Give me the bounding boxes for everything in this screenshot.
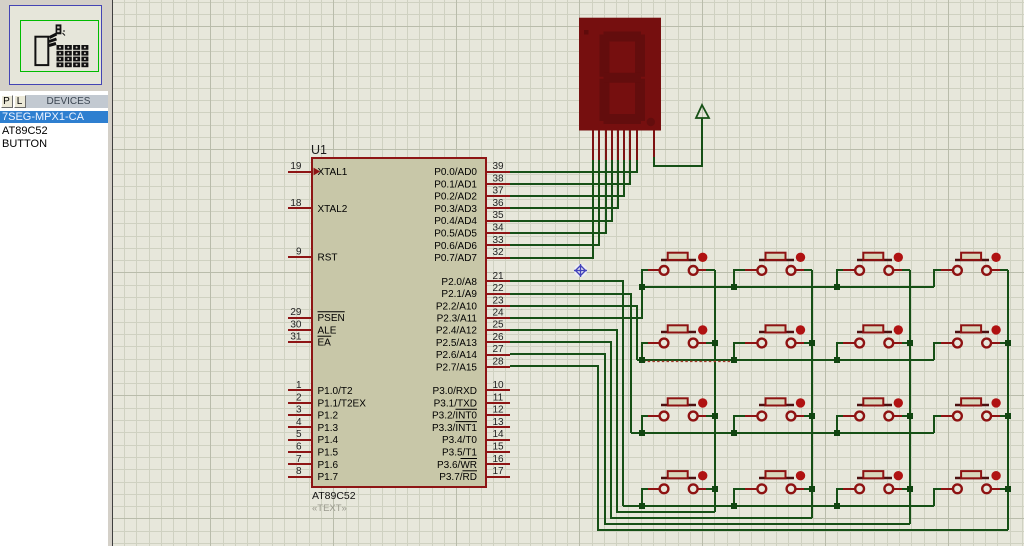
svg-text:P3.7/RD: P3.7/RD [439, 472, 477, 483]
button S2 actuator bar [759, 259, 794, 261]
pin 39 P0.0/AD0 stub [486, 171, 510, 173]
button S12 right terminal [982, 412, 991, 421]
button S16 left terminal [953, 484, 962, 493]
pin 27 P2.6/A14 stub [486, 354, 510, 356]
button S13 left terminal [660, 484, 669, 493]
svg-text:34: 34 [492, 223, 504, 234]
wire P2.1 pin 22 to keypad row 3 bus [510, 294, 631, 433]
svg-text:29: 29 [290, 307, 302, 318]
display segment pin 2 [598, 130, 600, 160]
button S11 red actuator dot [894, 398, 903, 407]
pin 13 P3.3/INT1 stub [486, 426, 510, 428]
junction column 3 row 3 [907, 413, 913, 419]
svg-text:PSEN: PSEN [318, 313, 345, 324]
pin 2 P1.1 stub [288, 402, 312, 404]
junction column 1 row 4 [712, 486, 718, 492]
button S10 red actuator dot [796, 398, 805, 407]
pin 24 P2.3/A11 stub [486, 317, 510, 319]
button S14 actuator bar [759, 477, 794, 479]
button S16 cap [961, 471, 981, 478]
button S14 red actuator dot [796, 471, 805, 480]
svg-text:XTAL2: XTAL2 [318, 204, 348, 215]
junction row 4 bus at column 1 drop [639, 503, 645, 509]
button S4 left terminal [953, 266, 962, 275]
button S8 red actuator dot [991, 325, 1000, 334]
pin 11 P3.1/TXD stub [486, 402, 510, 404]
button S16 terminal wires [934, 489, 941, 506]
button S11 right terminal [884, 412, 893, 421]
button S3 right pin stub [893, 269, 902, 271]
junction row 1 bus at column 2 drop [731, 284, 737, 290]
button S13 left pin stub [648, 488, 660, 490]
power symbol VCC [654, 118, 702, 166]
button S8 right terminal [982, 339, 991, 348]
svg-text:31: 31 [290, 332, 302, 343]
button S7 actuator bar [857, 331, 892, 333]
svg-text:36: 36 [492, 198, 504, 209]
svg-text:P1.3: P1.3 [318, 423, 339, 434]
pin 14 P3.4/T0 stub [486, 439, 510, 441]
wire P2.6 pin 27 to keypad column 3 [510, 354, 910, 524]
svg-text:11: 11 [493, 392, 504, 403]
svg-text:1: 1 [296, 380, 302, 391]
button S15 actuator bar [857, 477, 892, 479]
wire P0.6 pin 33 to display [510, 160, 599, 245]
svg-text:P2.1/A9: P2.1/A9 [441, 289, 477, 300]
pin 10 P3.0/RXD stub [486, 389, 510, 391]
svg-text:22: 22 [492, 283, 504, 294]
button S15 red actuator dot [894, 471, 903, 480]
button S9 right terminal [689, 412, 698, 421]
button S4 terminal wires [934, 270, 941, 287]
button S12 actuator bar [955, 404, 989, 406]
button S4 red actuator dot [991, 253, 1000, 262]
button S3 terminal wires [837, 270, 843, 287]
button S13 cap [668, 471, 688, 478]
button S16 actuator bar [955, 477, 989, 479]
svg-text:RST: RST [318, 253, 338, 264]
svg-text:7: 7 [296, 454, 302, 465]
button S2 terminal wires [734, 270, 745, 287]
button S5 red actuator dot [698, 325, 707, 334]
button S12 right pin stub [991, 415, 1000, 417]
button S1 terminal wires [642, 270, 648, 287]
button S12 red actuator dot [991, 398, 1000, 407]
op-amp U1 body AT89C52 microcontroller [312, 158, 486, 487]
button S3 actuator bar [857, 259, 892, 261]
button S10 right terminal [787, 412, 796, 421]
button S15 right pin stub [893, 488, 902, 490]
junction column 4 row 3 [1005, 413, 1011, 419]
pin 18 XTAL2 stub [288, 207, 312, 209]
button S14 right terminal [787, 484, 796, 493]
button S9 left pin stub [648, 415, 660, 417]
display segment pin 4 [611, 130, 613, 160]
keypad column 4 wire [1007, 270, 1009, 530]
button S1 cap [668, 253, 688, 260]
pin 38 P0.1/AD1 stub [486, 183, 510, 185]
thumbnail keypad [57, 45, 64, 50]
pin 31 EA stub [288, 341, 312, 343]
button S12 left pin stub [941, 415, 953, 417]
junction row 4 bus at column 3 drop [834, 503, 840, 509]
button S4 left pin stub [941, 269, 953, 271]
svg-text:ALE: ALE [318, 325, 337, 336]
svg-text:«TEXT»: «TEXT» [312, 503, 347, 514]
button S9 red actuator dot [698, 398, 707, 407]
junction row 2 bus at column 3 drop [834, 357, 840, 363]
svg-text:6: 6 [296, 442, 302, 453]
svg-text:P0.5/AD5: P0.5/AD5 [434, 229, 477, 240]
button S7 right terminal [884, 339, 893, 348]
wire P2.0 pin 21 to keypad row 4 bus [510, 281, 623, 506]
svg-text:5: 5 [296, 429, 302, 440]
keypad row 3 bus wire [631, 432, 934, 434]
button S2 cap [766, 253, 786, 260]
svg-text:9: 9 [296, 247, 302, 258]
junction row 2 bus at column 2 drop [731, 357, 737, 363]
wire P0.3 pin 36 to display [510, 160, 618, 208]
button S14 left terminal [757, 484, 766, 493]
button S16 red actuator dot [991, 471, 1000, 480]
junction row 2 bus at column 1 drop [639, 357, 645, 363]
svg-text:39: 39 [492, 161, 504, 172]
svg-text:23: 23 [492, 295, 504, 306]
button S11 terminal wires [837, 416, 843, 433]
pin 4 P1.3 stub [288, 426, 312, 428]
pin 36 P0.3/AD3 stub [486, 207, 510, 209]
button S10 actuator bar [759, 404, 794, 406]
button S9 right pin stub [698, 415, 706, 417]
thumbnail display [56, 24, 62, 34]
wire P0.1 pin 38 to display [510, 160, 630, 184]
pin 1 P1.0 stub [288, 389, 312, 391]
svg-text:P3.1/TXD: P3.1/TXD [434, 398, 477, 409]
pin 3 P1.2 stub [288, 414, 312, 416]
pin 25 P2.4/A12 stub [486, 329, 510, 331]
keypad row 2 bus wire [637, 359, 934, 361]
junction column 1 row 3 [712, 413, 718, 419]
button S11 actuator bar [857, 404, 892, 406]
button S8 left pin stub [941, 342, 953, 344]
pin 6 P1.5 stub [288, 451, 312, 453]
pin name labels left side [318, 167, 367, 483]
junction column 3 row 2 [907, 340, 913, 346]
button S14 cap [766, 471, 786, 478]
button S10 left terminal [757, 412, 766, 421]
svg-text:3: 3 [296, 405, 302, 416]
svg-text:P0.7/AD7: P0.7/AD7 [434, 253, 477, 264]
button S11 left pin stub [843, 415, 855, 417]
button S16 right pin stub [991, 488, 1000, 490]
display segment pin 8 [636, 130, 638, 160]
svg-text:P3.4/T0: P3.4/T0 [442, 435, 477, 446]
button S6 terminal wires [734, 343, 745, 360]
display segment pin 5 [617, 130, 619, 160]
wire P0.0 pin 39 to display [510, 160, 637, 172]
button S7 right pin stub [893, 342, 902, 344]
button S1 actuator bar [661, 259, 696, 261]
svg-text:17: 17 [492, 466, 504, 477]
button S8 terminal wires [934, 343, 941, 360]
svg-text:35: 35 [492, 210, 504, 221]
junction column 1 row 2 [712, 340, 718, 346]
button S6 left pin stub [745, 342, 757, 344]
row 2 bus red dashed overlay [643, 360, 734, 362]
svg-text:27: 27 [492, 344, 504, 355]
button S6 red actuator dot [796, 325, 805, 334]
junction row 1 bus at column 1 drop [639, 284, 645, 290]
svg-text:P0.4/AD4: P0.4/AD4 [434, 216, 477, 227]
button S12 terminal wires [934, 416, 941, 433]
button S13 red actuator dot [698, 471, 707, 480]
button S3 left pin stub [843, 269, 855, 271]
pin 15 P3.5/T1 stub [486, 451, 510, 453]
button S12 left terminal [953, 412, 962, 421]
svg-text:EA: EA [318, 338, 332, 349]
pin 23 P2.2/A10 stub [486, 305, 510, 307]
pin 9 RST stub [288, 256, 312, 258]
button S4 right terminal [982, 266, 991, 275]
svg-text:P0.0/AD0: P0.0/AD0 [434, 167, 477, 178]
button S10 cap [766, 398, 786, 405]
svg-text:26: 26 [492, 332, 504, 343]
pin 17 P3.7/RD stub [486, 476, 510, 478]
origin marker node [574, 264, 587, 277]
svg-text:P3.2/INT0: P3.2/INT0 [432, 411, 477, 422]
svg-text:14: 14 [492, 429, 504, 440]
junction column 3 row 4 [907, 486, 913, 492]
button S15 terminal wires [837, 489, 843, 506]
pin 33 P0.6/AD6 stub [486, 244, 510, 246]
active-low overbars [318, 312, 478, 471]
button S15 cap [863, 471, 883, 478]
button S14 terminal wires [734, 489, 745, 506]
button S3 left terminal [855, 266, 864, 275]
svg-text:P1.6: P1.6 [318, 460, 339, 471]
svg-text:P3.0/RXD: P3.0/RXD [433, 386, 477, 397]
button S1 right pin stub [698, 269, 706, 271]
button S8 actuator bar [955, 331, 989, 333]
svg-text:37: 37 [492, 186, 504, 197]
button S2 red actuator dot [796, 253, 805, 262]
svg-text:8: 8 [296, 466, 302, 477]
button S7 cap [863, 325, 883, 332]
button S4 actuator bar [955, 259, 989, 261]
svg-text:P0.2/AD2: P0.2/AD2 [434, 192, 477, 203]
svg-text:P2.0/A8: P2.0/A8 [441, 277, 477, 288]
button S15 left pin stub [843, 488, 855, 490]
button S1 left pin stub [648, 269, 660, 271]
button S4 cap [961, 253, 981, 260]
svg-text:19: 19 [290, 161, 302, 172]
svg-text:P3.5/T1: P3.5/T1 [442, 448, 477, 459]
svg-text:4: 4 [296, 417, 302, 428]
pin name labels right side [432, 167, 477, 483]
svg-text:P3.3/INT1: P3.3/INT1 [432, 423, 477, 434]
button S7 terminal wires [837, 343, 843, 360]
button S13 right pin stub [698, 488, 706, 490]
svg-text:18: 18 [290, 198, 302, 209]
button S4 right pin stub [991, 269, 1000, 271]
button S13 actuator bar [661, 477, 696, 479]
junction row 3 bus at column 3 drop [834, 430, 840, 436]
pin 37 P0.2/AD2 stub [486, 195, 510, 197]
button S9 actuator bar [661, 404, 696, 406]
svg-text:P1.5: P1.5 [318, 448, 339, 459]
button S9 left terminal [660, 412, 669, 421]
thumbnail wires [49, 34, 57, 46]
display common anode pin [653, 130, 655, 158]
button S8 right pin stub [991, 342, 1000, 344]
button S11 cap [863, 398, 883, 405]
keypad row 1 bus wire [642, 286, 934, 288]
button S16 left pin stub [941, 488, 953, 490]
svg-text:24: 24 [492, 308, 504, 319]
button S10 terminal wires [734, 416, 745, 433]
junction row 1 bus at column 3 drop [834, 284, 840, 290]
button S3 right terminal [884, 266, 893, 275]
button S6 left terminal [757, 339, 766, 348]
button S5 actuator bar [661, 331, 696, 333]
display segment pin 6 [623, 130, 625, 160]
svg-text:38: 38 [492, 173, 504, 184]
svg-text:U1: U1 [311, 143, 327, 157]
display pin 1 mark [584, 30, 589, 35]
svg-text:P0.3/AD3: P0.3/AD3 [434, 204, 477, 215]
display segment pin 1 [592, 130, 594, 160]
junction column 2 row 2 [809, 340, 815, 346]
button S13 right terminal [689, 484, 698, 493]
button S6 cap [766, 325, 786, 332]
junction row 3 bus at column 2 drop [731, 430, 737, 436]
svg-text:32: 32 [492, 247, 504, 258]
button S7 left terminal [855, 339, 864, 348]
pin 35 P0.4/AD4 stub [486, 220, 510, 222]
svg-text:2: 2 [296, 392, 302, 403]
wire P0.7 pin 32 to display [510, 160, 593, 258]
svg-text:P1.2: P1.2 [318, 411, 339, 422]
svg-text:28: 28 [492, 356, 504, 367]
junction column 4 row 2 [1005, 340, 1011, 346]
button S5 left pin stub [648, 342, 660, 344]
svg-text:XTAL1: XTAL1 [318, 167, 348, 178]
wire P2.5 pin 26 to keypad column 2 [510, 342, 812, 518]
svg-text:P0.6/AD6: P0.6/AD6 [434, 241, 477, 252]
junction column 2 row 4 [809, 486, 815, 492]
button S8 cap [961, 325, 981, 332]
pin 29 PSEN stub [288, 317, 312, 319]
pin 21 P2.0/A8 stub [486, 280, 510, 282]
button S3 cap [863, 253, 883, 260]
display segment pin 7 [629, 130, 631, 160]
svg-text:P0.1/AD1: P0.1/AD1 [434, 179, 477, 190]
button S3 red actuator dot [894, 253, 903, 262]
pin 28 P2.7/A15 stub [486, 366, 510, 368]
wire P2.2 pin 23 to keypad row 2 bus [510, 306, 637, 360]
wire P0.4 pin 35 to display [510, 160, 612, 221]
button S7 left pin stub [843, 342, 855, 344]
svg-text:16: 16 [492, 454, 504, 465]
svg-text:33: 33 [492, 235, 504, 246]
svg-text:P2.5/A13: P2.5/A13 [436, 338, 478, 349]
wire P0.2 pin 37 to display [510, 160, 624, 196]
svg-text:12: 12 [492, 405, 504, 416]
pin 16 P3.6/WR stub [486, 463, 510, 465]
button S9 cap [668, 398, 688, 405]
svg-text:30: 30 [290, 319, 302, 330]
button S15 left terminal [855, 484, 864, 493]
button S5 terminal wires [642, 343, 648, 360]
svg-text:25: 25 [492, 320, 504, 331]
display segment pin 3 [605, 130, 607, 160]
button S1 right terminal [689, 266, 698, 275]
button S14 right pin stub [796, 488, 804, 490]
keypad column 2 wire [811, 270, 813, 518]
button S1 red actuator dot [698, 253, 707, 262]
junction row 4 bus at column 2 drop [731, 503, 737, 509]
button S10 right pin stub [796, 415, 804, 417]
svg-text:P2.6/A14: P2.6/A14 [436, 350, 478, 361]
wire P2.4 pin 25 to keypad column 1 [510, 330, 715, 512]
svg-text:P2.7/A15: P2.7/A15 [436, 362, 478, 373]
wire P2.3 pin 24 to keypad row 1 bus [510, 287, 642, 318]
button S11 left terminal [855, 412, 864, 421]
button S6 actuator bar [759, 331, 794, 333]
button S6 right pin stub [796, 342, 804, 344]
button S2 right terminal [787, 266, 796, 275]
junction column 4 row 4 [1005, 486, 1011, 492]
svg-text:AT89C52: AT89C52 [312, 490, 356, 502]
svg-text:P1.0/T2: P1.0/T2 [318, 386, 353, 397]
pin 22 P2.1/A9 stub [486, 293, 510, 295]
button S6 right terminal [787, 339, 796, 348]
keypad row 4 bus wire [623, 505, 934, 507]
button S9 terminal wires [642, 416, 648, 433]
svg-text:P1.1/T2EX: P1.1/T2EX [318, 398, 367, 409]
junction row 1 bus left end [639, 284, 645, 290]
svg-text:10: 10 [492, 380, 504, 391]
button S14 left pin stub [745, 488, 757, 490]
svg-text:P2.4/A12: P2.4/A12 [436, 326, 478, 337]
button S15 right terminal [884, 484, 893, 493]
7-segment display DS body [579, 18, 661, 131]
svg-text:21: 21 [492, 271, 504, 282]
button S5 cap [668, 325, 688, 332]
svg-text:15: 15 [492, 442, 504, 453]
pin 32 P0.7/AD7 stub [486, 257, 510, 259]
keypad column 1 wire [714, 270, 716, 512]
pin 19 XTAL1 stub [288, 171, 312, 173]
pin 7 P1.6 stub [288, 463, 312, 465]
pin 34 P0.5/AD5 stub [486, 232, 510, 234]
button S5 left terminal [660, 339, 669, 348]
button S2 left pin stub [745, 269, 757, 271]
wire P0.5 pin 34 to display [510, 160, 606, 233]
wire P2.7 pin 28 to keypad column 4 [510, 366, 1008, 530]
7-segment digit segments [600, 32, 656, 127]
button S5 right pin stub [698, 342, 706, 344]
button S11 right pin stub [893, 415, 902, 417]
button S13 terminal wires [642, 489, 648, 506]
thumbnail chip [35, 37, 48, 65]
button S8 left terminal [953, 339, 962, 348]
button S16 right terminal [982, 484, 991, 493]
button S1 left terminal [660, 266, 669, 275]
button S10 left pin stub [745, 415, 757, 417]
svg-text:P1.7: P1.7 [318, 472, 339, 483]
junction column 2 row 3 [809, 413, 815, 419]
